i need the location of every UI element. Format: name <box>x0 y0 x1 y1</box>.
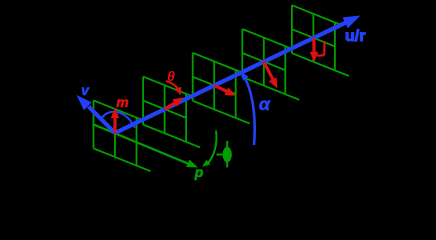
label -phi <box>217 154 223 156</box>
angle arc at vertex 1 <box>102 112 135 128</box>
svg-text:θ: θ <box>167 68 175 84</box>
svg-text:v: v <box>81 82 90 98</box>
angle arc alpha <box>243 75 255 146</box>
lattice grid 4 <box>242 29 299 100</box>
lattice grid 5 <box>292 5 349 76</box>
lattice grid 3 <box>193 53 250 124</box>
spin arrow m5 <box>312 38 316 55</box>
spin arrow m4 <box>264 62 274 82</box>
arrow v <box>89 107 116 134</box>
angle arc theta <box>166 81 180 93</box>
svg-text:u/r: u/r <box>345 28 365 45</box>
svg-text:p: p <box>194 164 204 180</box>
axis arrow u/r <box>115 20 352 133</box>
svg-text:α: α <box>259 94 271 114</box>
rotation arc -phi around p <box>207 131 217 165</box>
rotation hook at m5 <box>317 41 324 56</box>
svg-text:m: m <box>116 94 128 110</box>
spin arrow m2 <box>165 102 177 110</box>
lattice grid 1 <box>94 100 151 171</box>
line from vertex1 to point p <box>93 124 189 164</box>
spin arrow m1 <box>113 116 116 134</box>
spin arrow m3 <box>214 85 228 92</box>
lattice grid 2 <box>143 77 200 148</box>
